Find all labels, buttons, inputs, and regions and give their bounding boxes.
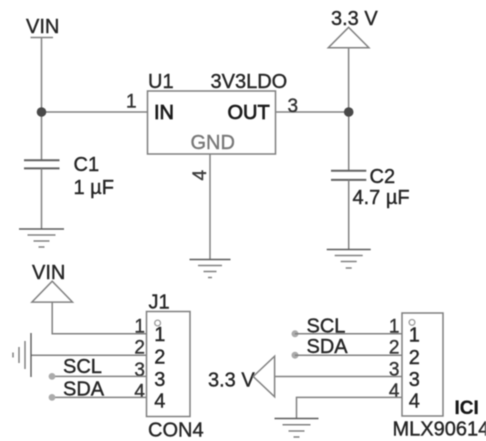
- op-amp / regulator U1 body: [148, 91, 276, 154]
- svg-text:4: 4: [154, 391, 165, 413]
- svg-text:C2: C2: [370, 166, 396, 188]
- wire C2 to ground: [348, 180, 350, 250]
- svg-text:CON4: CON4: [148, 420, 204, 441]
- junction node at 3.3V/C2/U1.OUT: [344, 107, 354, 117]
- power symbol 3.3V triangle: [328, 27, 369, 47]
- svg-text:4: 4: [409, 391, 420, 413]
- svg-text:4: 4: [190, 169, 211, 180]
- ground (left, rotated, at J1 pin 2): [13, 333, 31, 377]
- power symbol VIN triangle: [32, 281, 73, 302]
- wire SCL to J1 pin 3: [52, 375, 147, 377]
- node dot SDA (IC1): [292, 352, 299, 359]
- wire SDA to IC1 pin 2: [295, 354, 402, 356]
- power symbol 3.3V triangle (pointing left): [253, 356, 274, 397]
- svg-text:3V3LDO: 3V3LDO: [211, 71, 288, 93]
- svg-text:1: 1: [409, 325, 420, 347]
- svg-text:VIN: VIN: [26, 16, 59, 38]
- connector IC1 body: [402, 313, 443, 416]
- wire 3.3V to IC1 pin 3: [275, 376, 403, 378]
- IC1 pin 1 marker circle: [409, 320, 415, 326]
- svg-text:OUT: OUT: [228, 102, 270, 124]
- svg-text:3.3 V: 3.3 V: [208, 370, 255, 392]
- svg-text:2: 2: [389, 338, 400, 359]
- svg-text:U1: U1: [148, 71, 174, 93]
- svg-text:MLX90614: MLX90614: [393, 419, 486, 441]
- junction node at VIN/C1/U1.IN: [37, 107, 47, 117]
- svg-text:ICI: ICI: [455, 398, 479, 419]
- node dot SCL (J1): [49, 373, 56, 380]
- svg-text:1: 1: [126, 92, 137, 113]
- connector J1 body: [147, 312, 191, 417]
- wire node down to C2: [348, 112, 350, 171]
- node dot SDA (J1): [49, 394, 56, 401]
- J1 pin 1 marker circle: [155, 320, 161, 326]
- wire IC1 pin 4 to ground: [297, 397, 403, 418]
- capacitor C1: [24, 160, 60, 168]
- svg-text:1: 1: [134, 317, 145, 338]
- node dot SCL (IC1): [292, 330, 299, 337]
- svg-text:4.7 µF: 4.7 µF: [353, 187, 410, 209]
- ground (below U1): [190, 260, 231, 278]
- svg-text:3.3 V: 3.3 V: [331, 8, 378, 30]
- svg-text:SDA: SDA: [63, 379, 105, 401]
- wire node to U1 pin 1: [42, 111, 148, 113]
- svg-text:4: 4: [134, 382, 145, 403]
- wire SCL to IC1 pin 1: [295, 333, 402, 335]
- svg-text:C1: C1: [74, 154, 100, 176]
- capacitor C2: [331, 171, 366, 180]
- svg-text:3: 3: [134, 360, 145, 381]
- wire SDA to J1 pin 4: [52, 396, 147, 398]
- svg-text:IN: IN: [154, 102, 174, 124]
- wire node down to C1: [41, 112, 43, 160]
- wire 3.3V down to node: [348, 48, 350, 112]
- svg-text:3: 3: [154, 369, 165, 391]
- svg-text:3: 3: [409, 369, 420, 391]
- svg-text:3: 3: [389, 360, 400, 381]
- wire VIN triangle to J1 pin 1: [52, 302, 146, 334]
- ground (below C2): [327, 250, 371, 269]
- svg-text:2: 2: [409, 347, 420, 369]
- svg-text:4: 4: [389, 381, 400, 402]
- svg-text:SCL: SCL: [63, 356, 102, 378]
- wire U1 OUT to node: [276, 111, 349, 113]
- ground (below C1): [19, 229, 64, 247]
- wire U1 GND down: [209, 154, 211, 260]
- svg-text:1: 1: [154, 324, 165, 346]
- net label VIN (top): [26, 16, 59, 38]
- svg-text:GND: GND: [191, 132, 235, 154]
- wire VIN down to node: [41, 38, 43, 112]
- svg-text:2: 2: [154, 347, 165, 369]
- svg-text:VIN: VIN: [32, 262, 65, 284]
- svg-text:J1: J1: [149, 292, 170, 314]
- ground (below IC1 pin 4 wire): [275, 419, 319, 438]
- svg-text:1 µF: 1 µF: [74, 177, 114, 199]
- svg-text:1: 1: [389, 317, 400, 338]
- wire J1 pin 2 to ground: [31, 354, 147, 356]
- wire C1 to ground: [41, 168, 43, 229]
- svg-text:3: 3: [288, 96, 299, 117]
